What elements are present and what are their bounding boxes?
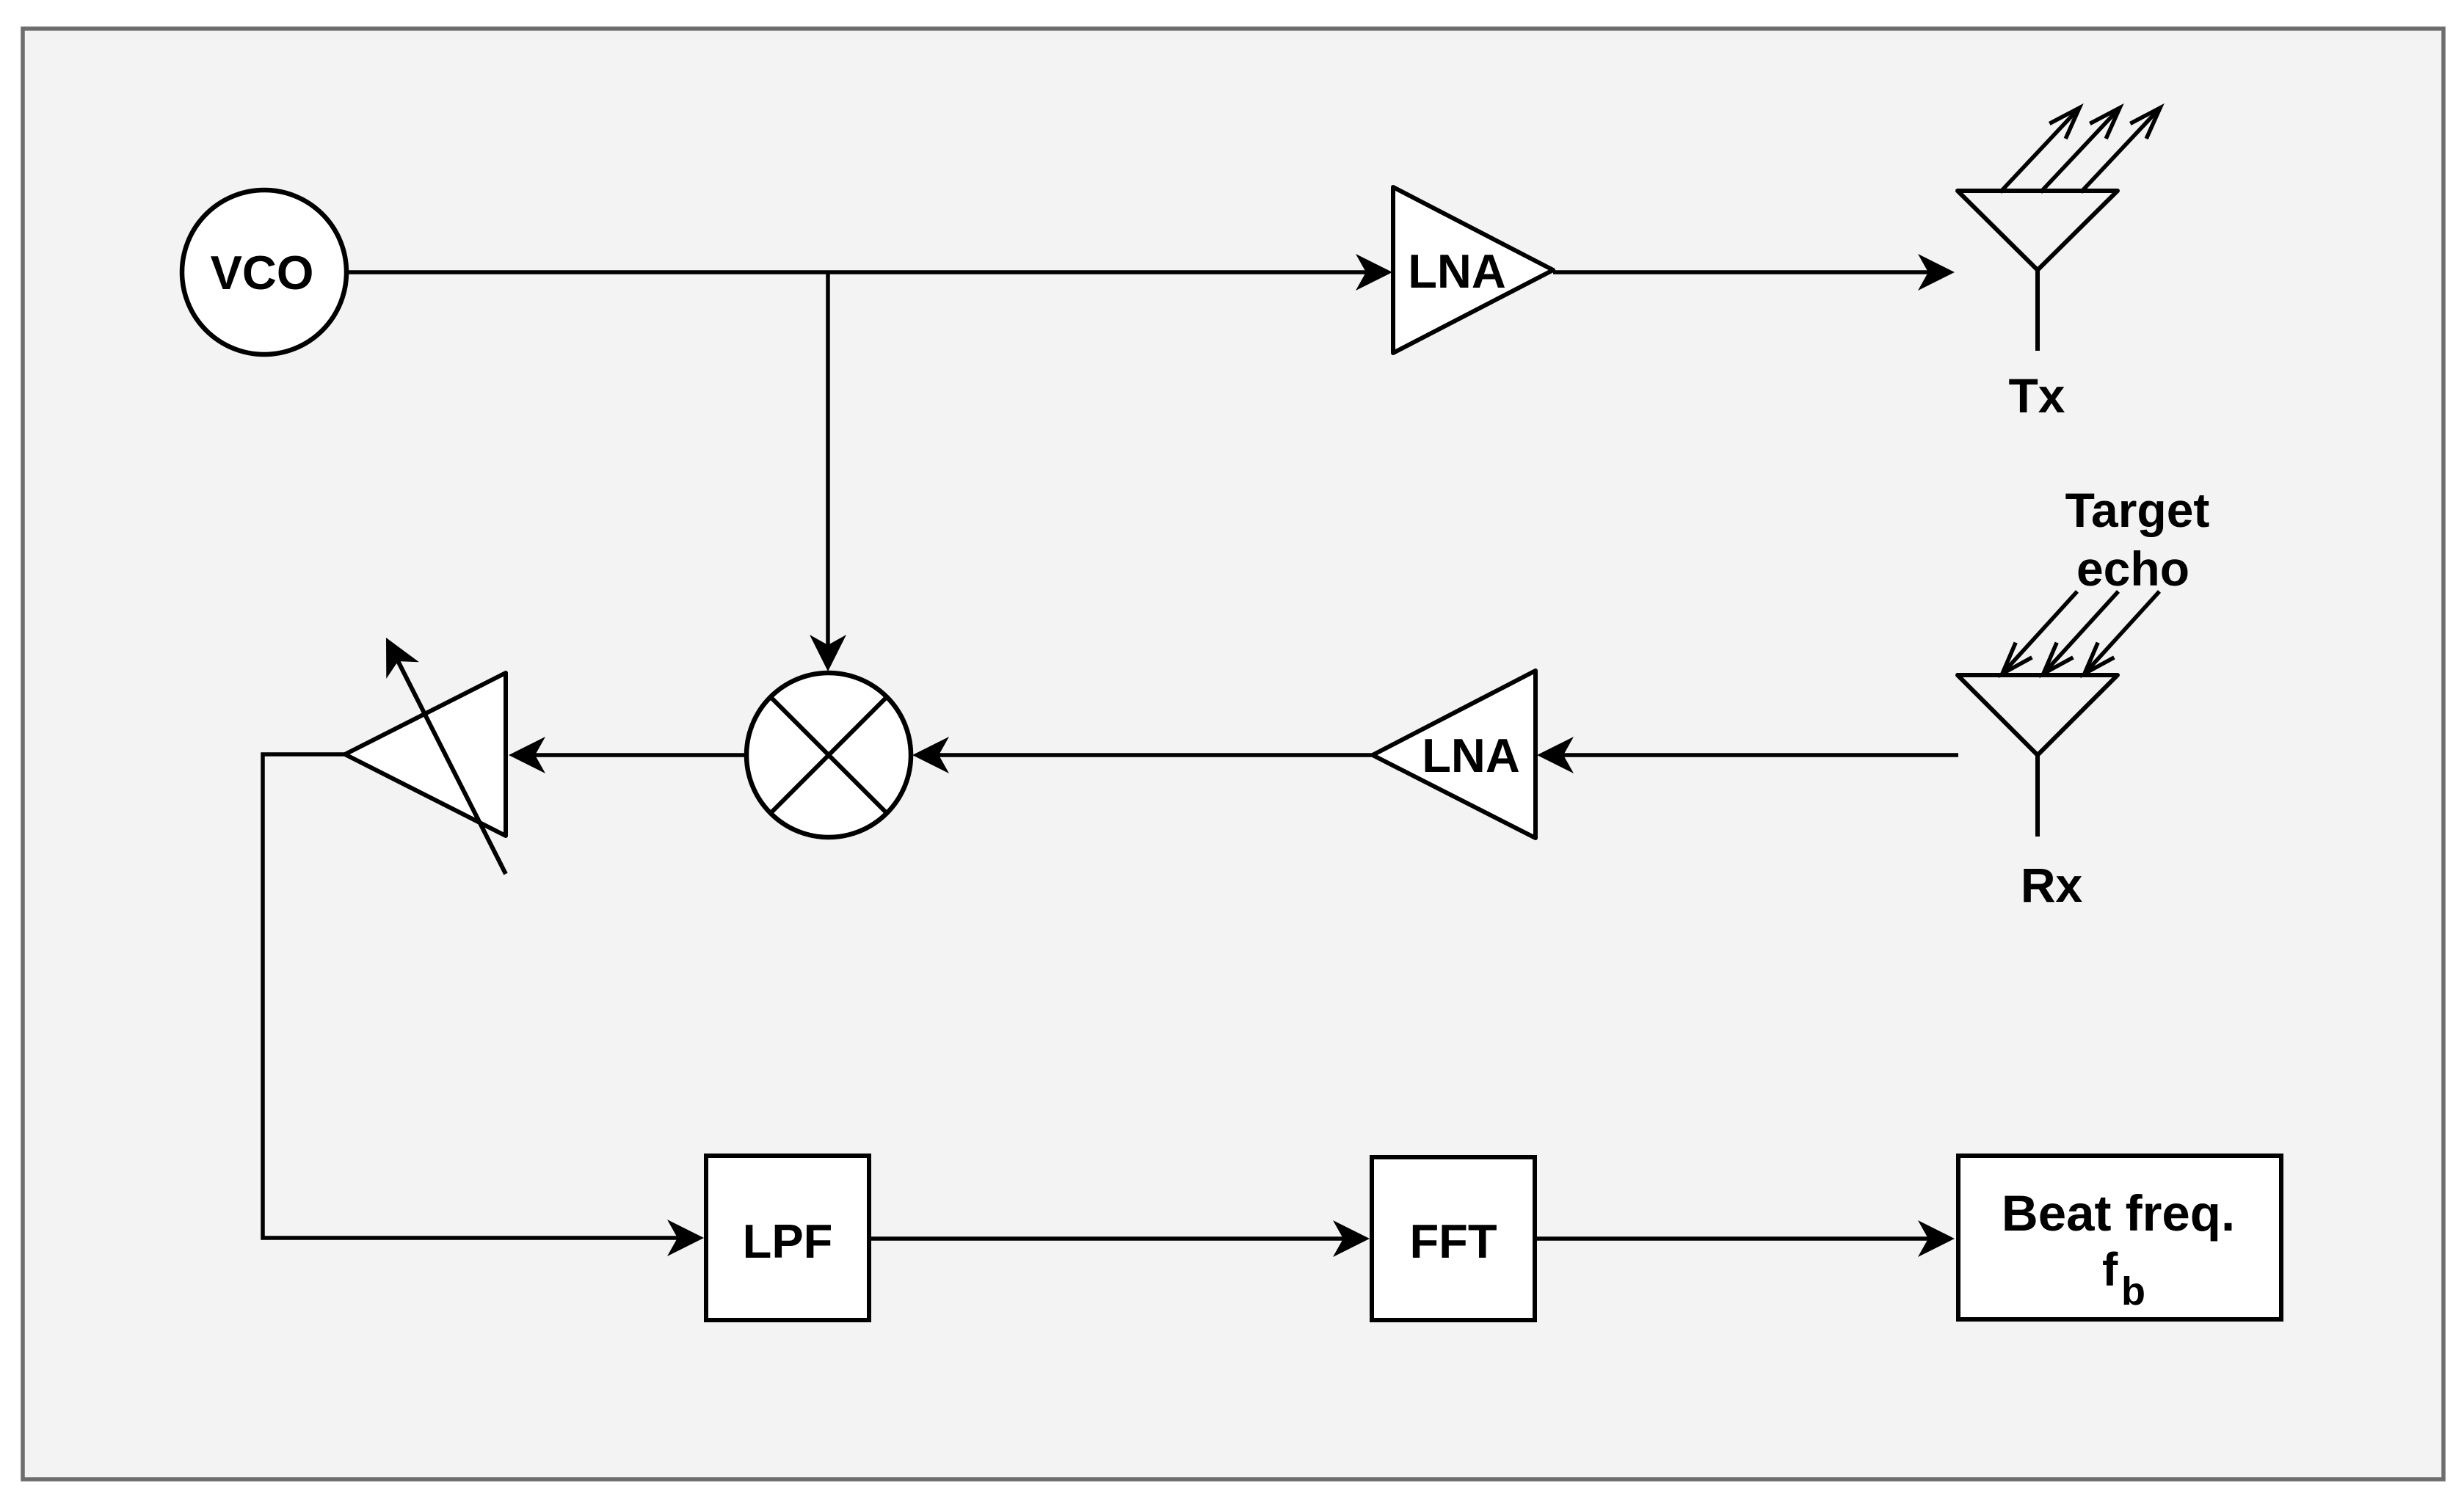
antenna Tx	[1958, 191, 2118, 351]
svg-text:Rx: Rx	[2021, 858, 2083, 912]
Tx radiated wave arrow 2	[2040, 108, 2120, 192]
label Target echo	[2065, 483, 2210, 596]
svg-text:f: f	[2102, 1243, 2118, 1296]
amplifier LNA1	[1393, 187, 1553, 353]
wire junction to mixer	[810, 272, 846, 671]
svg-text:Tx: Tx	[2008, 368, 2065, 423]
svg-text:LPF: LPF	[743, 1214, 833, 1268]
Rx echo wave arrow 1	[2002, 591, 2077, 674]
svg-text:Target: Target	[2065, 483, 2210, 537]
wire mixer to attenuator	[509, 737, 746, 773]
svg-text:VCO: VCO	[211, 246, 314, 299]
Tx radiated wave arrow 3	[2081, 108, 2160, 192]
amplifier LNA2	[1373, 671, 1536, 838]
wire VCO to LNA1	[346, 254, 1392, 291]
Rx echo wave arrow 3	[2085, 591, 2159, 674]
variable gain amplifier	[345, 673, 506, 836]
block LPF	[706, 1156, 869, 1320]
wire Rx to LNA2	[1537, 737, 1958, 773]
block FFT	[1372, 1157, 1535, 1320]
mixer	[746, 673, 911, 837]
svg-text:LNA: LNA	[1408, 244, 1506, 298]
Tx radiated wave arrow 1	[2000, 108, 2079, 192]
svg-text:b: b	[2121, 1269, 2145, 1313]
block Beat freq	[1958, 1156, 2281, 1319]
variable gain arrow	[386, 638, 506, 874]
oscillator VCO	[182, 190, 346, 354]
wire LNA2 to mixer	[912, 737, 1373, 773]
wire LPF to FFT	[869, 1220, 1370, 1257]
svg-text:echo: echo	[2076, 542, 2189, 596]
svg-text:FFT: FFT	[1409, 1214, 1497, 1268]
wire LNA1 to Tx antenna	[1553, 254, 1955, 291]
svg-text:LNA: LNA	[1422, 729, 1520, 782]
svg-text:Beat freq.: Beat freq.	[2002, 1185, 2235, 1242]
wire FFT to Beat freq	[1535, 1220, 1955, 1257]
antenna Rx	[1958, 675, 2118, 837]
wire attenuator to LPF	[263, 754, 704, 1256]
label Tx	[2008, 368, 2065, 423]
Rx echo wave arrow 2	[2043, 591, 2118, 674]
label Rx	[2021, 858, 2083, 912]
